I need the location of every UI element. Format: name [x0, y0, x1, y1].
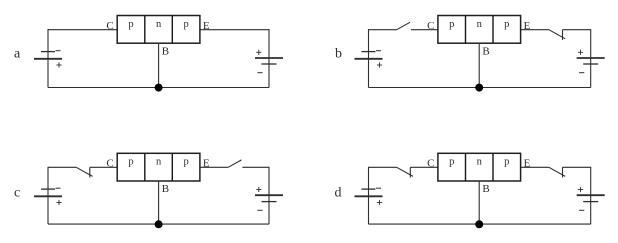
- svg-text:E: E: [203, 20, 210, 32]
- svg-text:p: p: [449, 19, 454, 30]
- svg-text:p: p: [183, 156, 188, 167]
- svg-text:p: p: [449, 156, 454, 167]
- svg-text:p: p: [128, 19, 133, 30]
- svg-text:B: B: [482, 183, 489, 195]
- svg-text:E: E: [203, 157, 210, 169]
- svg-text:a: a: [14, 46, 21, 61]
- svg-text:E: E: [524, 20, 531, 32]
- svg-text:b: b: [335, 46, 342, 61]
- svg-text:c: c: [14, 185, 20, 200]
- svg-text:E: E: [524, 157, 531, 169]
- svg-text:p: p: [128, 156, 133, 167]
- svg-text:p: p: [504, 156, 509, 167]
- svg-text:n: n: [477, 19, 483, 30]
- svg-text:n: n: [156, 19, 162, 30]
- svg-text:p: p: [504, 19, 509, 30]
- svg-text:C: C: [427, 157, 434, 169]
- svg-text:B: B: [162, 46, 169, 58]
- svg-text:C: C: [106, 157, 113, 169]
- svg-text:C: C: [427, 20, 434, 32]
- svg-text:C: C: [106, 20, 113, 32]
- svg-text:n: n: [156, 156, 162, 167]
- svg-text:d: d: [335, 185, 342, 200]
- svg-text:B: B: [162, 183, 169, 195]
- svg-text:B: B: [482, 46, 489, 58]
- svg-text:n: n: [477, 156, 483, 167]
- svg-text:p: p: [183, 19, 188, 30]
